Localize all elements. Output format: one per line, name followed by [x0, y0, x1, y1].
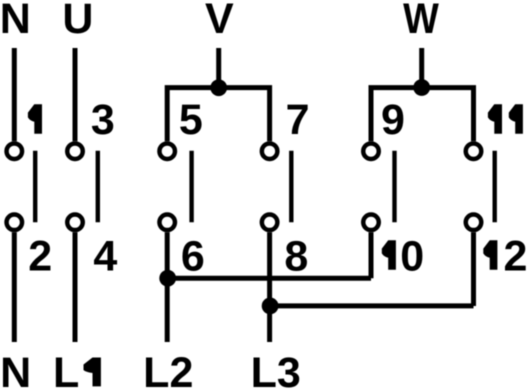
svg-text:8: 8 — [284, 232, 308, 280]
svg-text:6: 6 — [181, 232, 205, 280]
svg-text:N: N — [0, 349, 31, 391]
svg-text:0: 0 — [400, 232, 424, 280]
svg-text:W: W — [403, 0, 439, 42]
svg-text:5: 5 — [179, 96, 203, 144]
svg-text:N: N — [0, 0, 31, 43]
svg-text:9: 9 — [381, 96, 405, 144]
svg-text:2: 2 — [504, 232, 528, 280]
svg-text:L2: L2 — [143, 349, 193, 391]
svg-text:2: 2 — [28, 232, 52, 280]
svg-text:3: 3 — [91, 96, 115, 144]
svg-text:V: V — [205, 0, 234, 43]
svg-text:4: 4 — [93, 232, 117, 280]
svg-text:L: L — [53, 349, 79, 391]
svg-text:7: 7 — [286, 96, 310, 144]
svg-text:U: U — [62, 0, 93, 43]
svg-text:L3: L3 — [251, 349, 301, 391]
